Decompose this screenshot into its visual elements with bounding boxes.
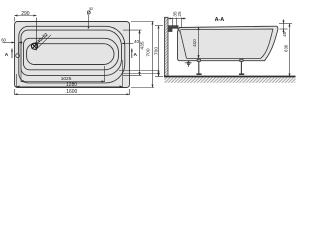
svg-text:52: 52	[89, 7, 93, 11]
svg-text:25: 25	[177, 11, 182, 17]
svg-text:700: 700	[146, 48, 152, 56]
svg-text:290: 290	[21, 11, 30, 17]
svg-text:A: A	[5, 52, 9, 58]
svg-text:A: A	[134, 52, 138, 58]
svg-text:45: 45	[282, 31, 287, 36]
svg-text:Ø: Ø	[87, 10, 91, 16]
svg-text:A-A: A-A	[215, 17, 225, 23]
svg-text:410: 410	[192, 39, 197, 47]
svg-text:435: 435	[139, 41, 145, 49]
svg-text:1600: 1600	[66, 89, 77, 95]
svg-text:40: 40	[134, 39, 140, 44]
svg-text:630: 630	[284, 44, 289, 52]
svg-text:60: 60	[1, 37, 6, 42]
svg-text:1280: 1280	[66, 82, 77, 88]
svg-text:700: 700	[154, 47, 160, 55]
